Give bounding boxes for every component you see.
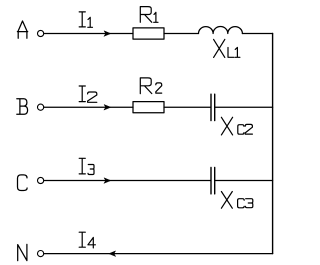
label I4 [79,232,95,248]
inductor XL1 [199,27,243,34]
wire B middle [164,106,210,108]
label I2 [79,86,97,102]
wire A to bus [242,33,272,35]
current arrow I2 [104,105,111,110]
current arrow I3 [104,178,111,183]
wire B input [44,106,133,108]
wire B to bus [215,106,272,108]
label I3 [79,158,94,174]
wire A input [44,33,133,35]
phase label B [17,99,28,114]
terminal N [38,251,44,257]
wire C input [44,180,211,182]
label R1 [140,7,158,23]
label XC3 [221,192,252,209]
current arrow I1 [104,31,111,36]
wire N [44,253,273,255]
terminal A [38,30,44,36]
phase label C [18,175,28,191]
label R2 [140,78,161,94]
label I1 [79,12,92,27]
phase label A [17,21,27,38]
right bus wire [272,34,274,254]
resistor R1 [133,28,164,39]
current arrow I4 [109,251,116,256]
wire A middle [164,33,199,35]
wire C to bus [215,180,272,182]
terminal B [38,104,44,110]
phase label N [18,244,27,260]
capacitor XC2 [211,94,215,120]
resistor R2 [133,102,164,113]
capacitor XC3 [211,168,215,194]
label XC2 [221,117,252,135]
label XL1 [214,39,240,57]
terminal C [38,177,44,183]
